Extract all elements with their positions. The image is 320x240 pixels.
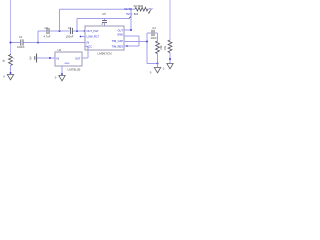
wire: long vertical input feed left: [10, 0, 12, 54]
node: dot above ground V1: [10, 72, 12, 74]
wire: GND pin joined to TIM_RES pin: [124, 35, 139, 37]
node: junction at (50,58): [49, 57, 51, 59]
IC U1 box LM567CN: [85, 26, 124, 50]
svg-text:9V: 9V: [29, 56, 33, 59]
ground for input column: [7, 75, 13, 80]
node: junction at (147,41.5): [146, 41, 148, 43]
svg-text:100nF: 100nF: [66, 35, 74, 39]
ground for U2: [59, 76, 65, 81]
wire: U2 gnd down: [61, 66, 63, 75]
svg-text:TIM_RES: TIM_RES: [112, 44, 124, 48]
wire: vertical x=77 down to filter net: [76, 19, 78, 32]
pin stub LOW_FILT left: [81, 36, 86, 38]
svg-text:OUT: OUT: [75, 56, 81, 60]
svg-text:5Vdc: 5Vdc: [126, 12, 133, 16]
regulator U2 box LM78L05: [55, 52, 82, 66]
power arrow top right: [149, 10, 151, 12]
wire: long vertical feed right: [169, 0, 171, 40]
svg-text:LOW_FILT: LOW_FILT: [87, 35, 100, 39]
wire: down into R3: [157, 33, 159, 41]
svg-text:LM567CN: LM567CN: [98, 52, 112, 56]
ground G4: [167, 64, 173, 69]
ground G3: [157, 64, 159, 68]
svg-text:10k: 10k: [163, 45, 167, 50]
wire: TIM_CAP net: [124, 41, 147, 43]
resistor R5 source termination: [9, 54, 13, 65]
wire: filter net y=31: [38, 30, 46, 32]
svg-text:C1: C1: [19, 35, 23, 39]
wire: OUT pin up to top bus: [124, 29, 131, 31]
node: junction at (157.5,63.5): [157, 63, 159, 65]
node: junction at (10.5,42.5): [10, 42, 12, 44]
power arrow at rail end: [129, 16, 131, 18]
node: junction at (131,30): [130, 29, 132, 31]
svg-text:LM78L05: LM78L05: [68, 67, 81, 71]
wire: top bus y=9.2: [60, 8, 136, 10]
svg-text:TIM_CAP: TIM_CAP: [112, 39, 124, 43]
pin stub VCC left: [85, 46, 88, 48]
capacitor C4: [147, 32, 151, 34]
svg-text:20k: 20k: [159, 45, 163, 50]
wire: into U2: [37, 57, 55, 59]
svg-text:5k6: 5k6: [134, 12, 139, 16]
svg-text:IN: IN: [87, 40, 90, 44]
capacitor C2: [46, 28, 48, 34]
node: junction at (77,31): [76, 30, 78, 32]
svg-text:C3: C3: [68, 26, 72, 30]
node: pin dot at (127,46): [126, 45, 128, 47]
svg-text:*: *: [13, 58, 14, 61]
node: junction at (170,59): [169, 58, 171, 60]
svg-text:C2: C2: [45, 26, 49, 30]
wire: input net y=42.5: [11, 42, 21, 44]
svg-text:OUT: OUT: [118, 28, 124, 32]
svg-text:GND: GND: [117, 32, 123, 36]
svg-text:4.7uF: 4.7uF: [44, 35, 51, 39]
svg-text:IN: IN: [57, 56, 60, 60]
svg-text:10nF: 10nF: [151, 36, 157, 40]
capacitor C1: [20, 39, 22, 45]
wire: U2 out up to VCC pin: [82, 57, 88, 59]
wire: vertical x=38: [37, 31, 39, 43]
resistor R4 on right column: [168, 40, 172, 53]
capacitor C3: [69, 28, 71, 34]
svg-text:FILTER: FILTER: [134, 4, 143, 8]
wire: vcc rail y=18.5: [77, 18, 129, 20]
svg-text:U2: U2: [58, 48, 62, 52]
svg-text:100nF: 100nF: [17, 45, 25, 49]
svg-text:OUT_FILT: OUT_FILT: [87, 29, 99, 33]
wire: vertical x=59.5 up to top bus: [59, 9, 61, 31]
node: junction at (131,9.2): [130, 8, 132, 10]
svg-text:C4: C4: [152, 26, 156, 30]
node: junction at (59.5,31): [59, 30, 61, 32]
node: pin end dot at (84.5,31): [84, 30, 86, 32]
node: junction at (38,42.5): [37, 42, 39, 44]
wire: bottom link y=63.5: [147, 63, 158, 65]
svg-text:5V: 5V: [149, 7, 152, 11]
svg-text:C5: C5: [102, 12, 106, 16]
resistor R1: [135, 7, 149, 11]
svg-text:OUT: OUT: [124, 7, 130, 11]
resistor R3: [156, 41, 160, 54]
node: dot above ground U2: [61, 73, 63, 75]
svg-text:GND: GND: [65, 63, 70, 65]
